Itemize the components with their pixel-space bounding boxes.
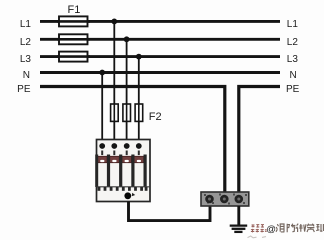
svg-text:@: @ [266, 224, 276, 235]
svg-text:F2: F2 [149, 111, 162, 123]
svg-text:L1: L1 [287, 19, 299, 30]
svg-text:N: N [23, 70, 30, 81]
svg-text:PE: PE [286, 84, 300, 95]
svg-text:L2: L2 [287, 37, 299, 48]
svg-text:L3: L3 [20, 54, 32, 65]
svg-text:PE: PE [17, 84, 31, 95]
svg-text:F1: F1 [68, 4, 81, 16]
svg-text:L2: L2 [20, 37, 32, 48]
svg-text:L3: L3 [287, 54, 299, 65]
svg-text:N: N [290, 70, 297, 81]
svg-text:L1: L1 [20, 19, 32, 30]
